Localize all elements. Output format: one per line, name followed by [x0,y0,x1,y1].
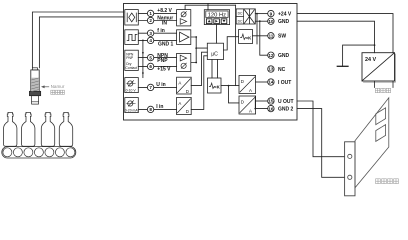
svg-text:A: A [178,101,181,106]
svg-text:DC: DC [238,19,243,23]
svg-text:24 V: 24 V [365,57,376,63]
svg-text:A: A [249,109,252,114]
block current input B5 [125,98,139,113]
terminal 8 [147,106,153,112]
terminal 6 [147,63,153,69]
PLC connector 2 [376,125,386,142]
svg-text:D: D [241,99,244,104]
svg-text:13: 13 [268,67,274,72]
ADC U3 [177,97,192,114]
terminal 10 [268,18,274,24]
wire uC to K2 left [211,60,213,79]
block frequency input B2 [125,30,139,45]
terminal numbers [149,11,274,112]
svg-text:0-20 mA: 0-20 mA [125,109,139,113]
sensor hatch band [31,78,39,92]
wire uC to K2 right [217,60,219,79]
symbol DAC U6 [240,77,255,92]
svg-text:NC: NC [278,67,286,73]
svg-text:µC: µC [211,51,218,57]
svg-text:=K: =K [246,35,253,40]
svg-text:3: 3 [149,31,152,36]
wire terminal 10 to supply [297,21,374,53]
DC-DC converter U5 [236,9,255,24]
DAC U7 [239,96,256,114]
terminal 12 [268,52,274,58]
block input selector B3 [125,50,139,70]
svg-text:A: A [178,81,181,86]
svg-text:9: 9 [270,11,273,16]
wire row terminal 4 [138,39,176,41]
svg-text:I in: I in [156,104,163,110]
bottle 3 [41,112,54,146]
arrow head sensor label [41,85,45,88]
svg-text:15: 15 [268,99,274,104]
microcontroller U4 [207,43,223,59]
wire terminal 15 to PLC [297,101,344,157]
wire DCDC branch down [256,14,258,44]
symbol A3 [180,55,186,61]
sensor body [31,70,39,92]
wire row terminal 7 [138,86,176,88]
fake hanzi sensor label [51,90,65,94]
amplifier A3 [177,53,191,71]
wire middle vertical rail [235,5,237,85]
svg-text:2: 2 [149,18,152,23]
wire terminal 16 to PLC [297,109,344,178]
svg-text:DC: DC [238,11,243,15]
bottle 1 [4,112,17,146]
svg-text:PNP: PNP [126,56,134,60]
PLC connector 1 [376,108,386,125]
terminal 7 [147,84,153,90]
svg-text:GND: GND [278,53,290,59]
svg-text:D: D [186,89,189,94]
block voltage input B4 [125,78,139,93]
junction dots [142,13,375,110]
terminal 1 [147,10,153,16]
svg-text:D: D [241,79,244,84]
svg-text:I OUT: I OUT [278,80,291,86]
svg-text:16: 16 [268,106,274,111]
svg-text:f in: f in [157,28,165,34]
terminal 2 [147,17,153,23]
svg-text:+15 V: +15 V [157,66,171,72]
terminal 3 [147,30,153,36]
symbol ADC U2 [177,79,190,93]
symbol A2 triangle [180,32,189,42]
wire terminal 9 to supply [297,14,393,53]
ground symbol [337,65,348,67]
power supply box PS1 [362,53,395,81]
terminal 14 [268,79,274,85]
bottle 4 [59,112,72,146]
wire DAC1 to terminal 14 [256,81,268,83]
pin labels right [278,12,294,113]
terminal circles [147,10,274,112]
wire DCDC to terminal 10 [255,20,267,22]
pin labels left [156,8,173,110]
display module [204,10,229,25]
svg-text:U in: U in [156,82,165,88]
svg-text:A: A [249,88,252,93]
svg-text:1: 1 [149,11,152,16]
wire row terminal 6 [138,65,176,67]
symbol B1 proximity [127,13,136,22]
fake hanzi control system label [376,179,399,184]
fake hanzi main power label [375,88,390,92]
svg-text:U OUT: U OUT [278,99,294,105]
conveyor [2,147,76,158]
wire ground rail to terminal 12 [260,21,268,55]
wire amp output rail [191,37,207,63]
symbol B4 range [128,81,133,86]
symbol B5 range [128,101,133,106]
svg-text:GND 2: GND 2 [278,107,294,113]
wire ground branch [343,45,375,66]
PLC bracket [345,142,355,196]
terminal 5 [147,54,153,60]
svg-text:GND: GND [278,19,290,25]
PLC plane [355,98,389,188]
terminal 9 [268,10,274,16]
wire row terminal 2 [138,20,176,22]
terminal 15 [268,98,274,104]
wire DAC2 to terminal 15 [256,100,268,102]
wire sensor cable inner [39,17,123,68]
wire ADC1 to uC [191,52,207,85]
terminal 16 [268,105,274,111]
amplifier A1 [177,10,191,26]
svg-text:8: 8 [149,107,152,112]
svg-text:5: 5 [149,55,152,60]
symbol K1 [241,34,246,39]
amplifier A2 [177,30,191,45]
symbol K2 [209,83,214,88]
block texts [125,11,377,114]
DAC U6 [239,76,256,94]
svg-text:SW: SW [278,34,286,40]
wire box top to display [207,4,209,10]
terminal 11 [268,33,274,39]
terminal 4 [147,37,153,43]
svg-text:Namur: Namur [51,84,65,89]
symbol DAC U7 [240,98,255,113]
converter K1 [239,30,253,44]
symbol A1 [181,12,186,17]
wire row terminal 8 [138,108,176,110]
wire K2 to DAC2 [229,86,240,103]
wire K1 to terminal 11 [253,35,268,37]
bottle 2 [22,112,35,146]
wire DCDC to terminal 9 [255,13,267,15]
wire sensor cable outer [32,12,123,68]
block sensor input B1 [125,10,139,25]
wire row terminal 1 [138,12,176,14]
svg-text:6: 6 [149,64,152,69]
svg-text:4: 4 [149,38,152,43]
wire left vertical rail [142,40,144,77]
wire row terminal 3 [138,32,176,34]
svg-text:14: 14 [268,80,274,85]
sensor label arrow [44,86,49,88]
svg-text:Contact: Contact [125,66,137,70]
svg-text:7: 7 [149,85,152,90]
wire ADC2 to uC [191,56,207,110]
wire uC to K1 [224,37,239,50]
wire K2 to DAC1 [221,85,239,87]
converter K2 [208,78,222,93]
svg-text:11: 11 [268,34,273,39]
svg-text:0-10 V: 0-10 V [126,89,137,93]
wire top supply rail [185,5,236,9]
svg-text:PNP: PNP [157,58,168,64]
converter main box U1 [124,4,298,121]
svg-text:D: D [186,109,189,114]
svg-text:+8.2 V: +8.2 V [157,8,172,14]
wire row terminal 5 [138,57,176,59]
svg-text:IN: IN [162,21,167,27]
svg-text:=K: =K [214,84,221,89]
symbol B2 squarewave [127,34,137,40]
svg-text:+24 V: +24 V [278,12,292,18]
display buttons glyphs [208,20,226,23]
svg-text:12: 12 [268,53,274,58]
wire terminal 16 [255,96,267,108]
wire display to uC [216,25,218,44]
ADC U2 [177,77,192,94]
symbol ADC U3 [177,99,190,113]
terminal 13 [268,66,274,72]
svg-text:120 Hz: 120 Hz [208,13,226,19]
svg-text:10: 10 [268,19,274,24]
svg-text:GND 1: GND 1 [158,41,174,47]
